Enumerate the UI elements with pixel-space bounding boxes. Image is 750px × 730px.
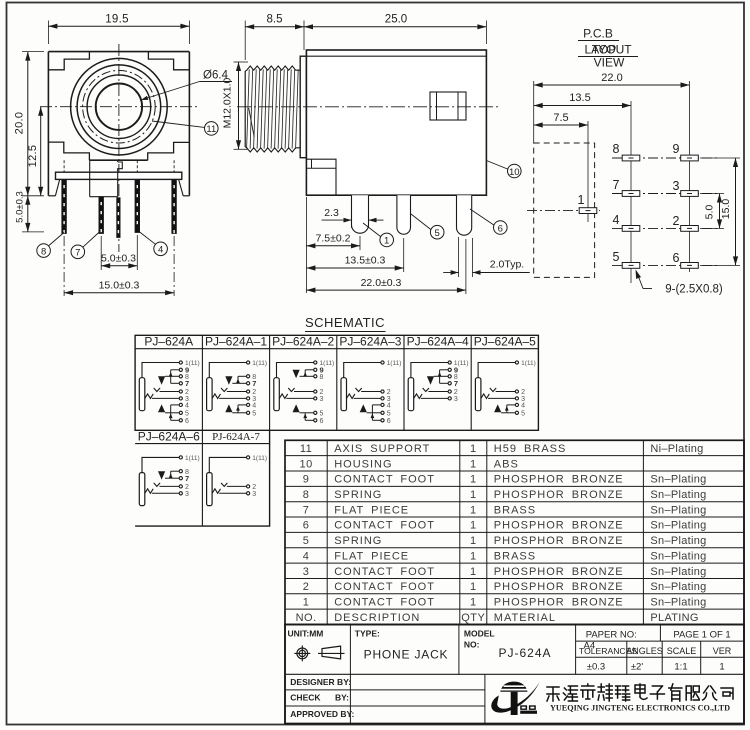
svg-text:PJ–624A–4: PJ–624A–4 bbox=[407, 334, 469, 348]
schematic PJ-624A-6: terminal 7 bbox=[179, 477, 182, 480]
schematic PJ-624A: terminal 7 bbox=[179, 382, 182, 385]
svg-text:PHOSPHOR BRONZE: PHOSPHOR BRONZE bbox=[494, 535, 624, 547]
svg-text:5: 5 bbox=[320, 411, 324, 418]
front corner steps bbox=[48, 52, 89, 70]
balloon 7 bbox=[71, 245, 85, 259]
svg-text:BY:: BY: bbox=[335, 693, 349, 703]
schematic PJ-624A-1: terminal 5 bbox=[247, 411, 250, 414]
svg-text:BRASS: BRASS bbox=[494, 550, 536, 562]
schematic PJ-624A-3: terminal 1(11) bbox=[381, 361, 384, 364]
schematic PJ-624A-3: sleeve wire to terminal 1 bbox=[344, 363, 381, 378]
svg-text:Sn–Plating: Sn–Plating bbox=[650, 581, 706, 593]
svg-text:SCHEMATIC: SCHEMATIC bbox=[305, 315, 385, 330]
pad 6 bbox=[681, 263, 699, 269]
svg-text:1: 1 bbox=[719, 662, 724, 673]
dim 25.0 top bbox=[304, 26, 486, 28]
side view: phone jack side elevation bbox=[222, 14, 530, 295]
svg-text:3: 3 bbox=[252, 491, 256, 498]
schematic PJ-624A: terminal 2 bbox=[179, 390, 182, 393]
svg-text:±2': ±2' bbox=[631, 662, 643, 673]
svg-text:15.0: 15.0 bbox=[720, 199, 732, 220]
centerline through pin 1 bbox=[527, 210, 600, 212]
dim 15.0 pcb bbox=[700, 157, 740, 159]
schematic PJ-624A: terminal 3 bbox=[179, 397, 182, 400]
svg-text:1: 1 bbox=[303, 596, 310, 608]
pin 7 (front) bbox=[99, 197, 104, 234]
svg-text:PHOSPHOR BRONZE: PHOSPHOR BRONZE bbox=[494, 581, 624, 593]
svg-text:P.C.B: P.C.B bbox=[583, 27, 613, 41]
svg-text:3: 3 bbox=[454, 396, 458, 403]
svg-text:DESCRIPTION: DESCRIPTION bbox=[334, 612, 420, 624]
svg-text:ANGLES: ANGLES bbox=[626, 646, 663, 656]
dim 20.0 left bbox=[22, 51, 44, 53]
svg-text:3: 3 bbox=[185, 491, 189, 498]
front body outline bbox=[48, 51, 189, 53]
schematic PJ-624A-5: sleeve wire to terminal 1 bbox=[478, 363, 515, 378]
svg-text:VER: VER bbox=[713, 646, 732, 656]
svg-text:Sn–Plating: Sn–Plating bbox=[650, 535, 706, 547]
projection symbol cone bbox=[322, 646, 341, 659]
svg-text:7: 7 bbox=[303, 504, 310, 516]
pad 7 bbox=[622, 191, 640, 197]
svg-text:10: 10 bbox=[509, 167, 520, 178]
svg-text:25.0: 25.0 bbox=[385, 14, 407, 26]
svg-text:5: 5 bbox=[387, 411, 391, 418]
svg-text:4: 4 bbox=[252, 403, 256, 410]
svg-text:6: 6 bbox=[303, 520, 310, 532]
svg-text:5.0±0.3: 5.0±0.3 bbox=[15, 191, 26, 223]
schematic PJ-624A-2: terminal 8 bbox=[314, 375, 317, 378]
balloon 10 bbox=[508, 164, 522, 178]
svg-text:15.0±0.3: 15.0±0.3 bbox=[99, 279, 140, 291]
svg-text:M12.0X1.0: M12.0X1.0 bbox=[222, 77, 234, 128]
svg-text:SPRING: SPRING bbox=[334, 489, 382, 501]
pin 8 (front) bbox=[62, 180, 67, 234]
svg-text:PJ–624A–2: PJ–624A–2 bbox=[272, 334, 334, 348]
svg-text:1(11): 1(11) bbox=[185, 455, 200, 462]
schematic PJ-624A-7: sleeve bar bbox=[207, 473, 213, 506]
pin 5 (side) bbox=[397, 195, 411, 234]
schematic PJ-624A-1: terminal 1(11) bbox=[247, 361, 250, 364]
svg-text:PJ–624A–1: PJ–624A–1 bbox=[205, 334, 267, 348]
pin 4 (front) bbox=[135, 180, 140, 233]
jack barrel circles bbox=[71, 58, 168, 155]
centerline side bbox=[237, 106, 500, 108]
svg-text:1(11): 1(11) bbox=[252, 455, 267, 462]
pad 5 bbox=[622, 263, 640, 269]
svg-text:Ni–Plating: Ni–Plating bbox=[650, 443, 703, 455]
schematic PJ-624A-3: terminal 6 bbox=[381, 419, 384, 422]
schematic PJ-624A-5: terminal 2 bbox=[515, 390, 518, 393]
pad row centerlines bbox=[612, 157, 718, 159]
svg-text:BRASS: BRASS bbox=[494, 504, 536, 516]
svg-text:1: 1 bbox=[470, 535, 477, 547]
svg-text:5: 5 bbox=[185, 411, 189, 418]
svg-text:PJ–624A–3: PJ–624A–3 bbox=[339, 334, 401, 348]
threaded bushing M12 bbox=[247, 66, 301, 152]
svg-text:6: 6 bbox=[498, 223, 503, 234]
svg-text:2: 2 bbox=[673, 214, 680, 228]
balloon 1 bbox=[380, 233, 394, 247]
parts list table bbox=[285, 440, 744, 624]
svg-text:5: 5 bbox=[435, 228, 440, 239]
pin 6 (side) bbox=[457, 195, 472, 235]
svg-text:PAPER NO:: PAPER NO: bbox=[586, 630, 637, 641]
svg-text:CONTACT FOOT: CONTACT FOOT bbox=[334, 566, 435, 578]
svg-text:TOP: TOP bbox=[592, 43, 616, 57]
schematic PJ-624A: terminal 1(11) bbox=[179, 361, 182, 364]
svg-text:H59 BRASS: H59 BRASS bbox=[494, 443, 567, 455]
svg-text:VIEW: VIEW bbox=[594, 56, 625, 70]
svg-text:2.0Typ.: 2.0Typ. bbox=[490, 258, 524, 270]
schematic PJ-624A: terminal 4 bbox=[179, 403, 182, 406]
dim 12.5 left bbox=[40, 107, 42, 196]
svg-text:FLAT PIECE: FLAT PIECE bbox=[334, 550, 409, 562]
schematic PJ-624A-1: terminal 2 bbox=[247, 390, 250, 393]
svg-text:MODEL: MODEL bbox=[464, 629, 495, 639]
svg-text:PJ-624A-7: PJ-624A-7 bbox=[212, 431, 260, 443]
svg-text:1: 1 bbox=[384, 236, 389, 247]
balloon 6 bbox=[494, 221, 508, 235]
pad 2 bbox=[681, 226, 699, 232]
svg-text:1(11): 1(11) bbox=[252, 360, 267, 367]
svg-text:UNIT:MM: UNIT:MM bbox=[288, 629, 324, 639]
svg-text:10: 10 bbox=[299, 458, 312, 470]
svg-text:Sn–Plating: Sn–Plating bbox=[650, 504, 706, 516]
svg-text:3: 3 bbox=[673, 179, 680, 193]
svg-text:APPROVED BY:: APPROVED BY: bbox=[290, 709, 354, 719]
dim 7.5 pcb bbox=[534, 124, 588, 126]
schematic PJ-624A-6: sleeve wire to terminal 1 bbox=[142, 457, 179, 472]
svg-text:PJ-624A: PJ-624A bbox=[498, 646, 551, 660]
schematic PJ-624A-3: sleeve bar bbox=[341, 378, 347, 411]
svg-text:11: 11 bbox=[300, 443, 312, 455]
svg-text:1:1: 1:1 bbox=[674, 662, 687, 673]
svg-text:1: 1 bbox=[470, 550, 477, 562]
side body lower-left block bbox=[306, 159, 336, 194]
pad 9 bbox=[681, 155, 699, 161]
svg-text:4: 4 bbox=[185, 403, 189, 410]
svg-text:2.3: 2.3 bbox=[324, 207, 339, 219]
schematic PJ-624A-1: sleeve wire to terminal 1 bbox=[209, 363, 246, 378]
dim 5.0±0.3 bottom (pin spacing) bbox=[100, 236, 102, 270]
svg-text:DESIGNER BY:: DESIGNER BY: bbox=[290, 677, 351, 687]
dim 22.0 pcb bbox=[534, 84, 690, 86]
schematic PJ-624A-6: terminal 1(11) bbox=[179, 456, 182, 459]
schematic PJ-624A-2: sleeve bar bbox=[274, 378, 280, 411]
schematic PJ-624A-5: terminal 5 bbox=[515, 411, 518, 414]
dim 2.0 Typ bbox=[458, 237, 460, 277]
svg-text:NO.: NO. bbox=[296, 612, 317, 624]
svg-text:1: 1 bbox=[470, 520, 477, 532]
svg-text:1: 1 bbox=[578, 193, 585, 207]
schematic PJ-624A-1: terminal 7 bbox=[247, 382, 250, 385]
svg-text:CONTACT FOOT: CONTACT FOOT bbox=[334, 474, 435, 486]
dim 7.5±0.2 bbox=[305, 197, 307, 293]
svg-text:CONTACT FOOT: CONTACT FOOT bbox=[334, 596, 435, 608]
centerlines front bbox=[118, 44, 120, 252]
schematic PJ-624A-4: terminal 7 bbox=[448, 382, 451, 385]
svg-text:9: 9 bbox=[673, 142, 680, 156]
svg-text:12.5: 12.5 bbox=[27, 145, 39, 168]
svg-text:8: 8 bbox=[613, 142, 620, 156]
svg-text:5: 5 bbox=[303, 535, 310, 547]
projection symbol target bbox=[297, 648, 308, 659]
schematic PJ-624A-4: sleeve wire to terminal 1 bbox=[411, 363, 448, 378]
svg-text:1: 1 bbox=[470, 566, 477, 578]
svg-text:8.5: 8.5 bbox=[267, 14, 283, 26]
dim 5.0±0.3 left bbox=[22, 231, 44, 233]
svg-text:1: 1 bbox=[470, 458, 477, 470]
svg-text:4: 4 bbox=[521, 403, 525, 410]
svg-text:8: 8 bbox=[41, 246, 46, 257]
pin 1 (side) bbox=[352, 195, 369, 233]
pad 4 bbox=[622, 226, 640, 232]
schematic PJ-624A-2: terminal 5 bbox=[314, 411, 317, 414]
schematic grid row 2 bbox=[135, 430, 270, 526]
svg-text:6: 6 bbox=[185, 418, 189, 425]
dim 15.0±0.3 bottom bbox=[63, 236, 65, 296]
schematic PJ-624A: terminal 8 bbox=[179, 375, 182, 378]
svg-text:7: 7 bbox=[185, 474, 189, 483]
svg-text:6: 6 bbox=[673, 251, 680, 265]
schematic PJ-624A-5: sleeve bar bbox=[475, 378, 481, 411]
svg-text:20.0: 20.0 bbox=[14, 112, 26, 135]
svg-text:PJ–624A: PJ–624A bbox=[144, 334, 193, 348]
svg-text:PAGE 1 OF 1: PAGE 1 OF 1 bbox=[673, 630, 730, 641]
svg-text:TYPE:: TYPE: bbox=[355, 629, 380, 639]
company logo bbox=[491, 682, 539, 715]
schematic PJ-624A-7: terminal 3 bbox=[247, 492, 250, 495]
title block inner borders bbox=[285, 673, 744, 675]
svg-text:11: 11 bbox=[206, 124, 216, 135]
svg-text:1: 1 bbox=[470, 581, 477, 593]
svg-text:5: 5 bbox=[252, 411, 256, 418]
svg-text:NO:: NO: bbox=[464, 640, 480, 650]
svg-text:QTY: QTY bbox=[461, 612, 485, 624]
svg-text:PHOSPHOR BRONZE: PHOSPHOR BRONZE bbox=[494, 489, 624, 501]
svg-text:A4: A4 bbox=[584, 641, 596, 652]
svg-text:FLAT PIECE: FLAT PIECE bbox=[334, 504, 409, 516]
svg-text:SCALE: SCALE bbox=[667, 646, 697, 656]
schematic PJ-624A-4: terminal 8 bbox=[448, 375, 451, 378]
svg-text:6: 6 bbox=[387, 418, 391, 425]
pin stubs behind flange bbox=[136, 160, 138, 172]
svg-text:7.5±0.2: 7.5±0.2 bbox=[316, 233, 351, 245]
svg-text:CHECK: CHECK bbox=[290, 693, 321, 703]
svg-text:13.5: 13.5 bbox=[569, 92, 590, 104]
svg-text:Sn–Plating: Sn–Plating bbox=[650, 474, 706, 486]
schematic PJ-624A-7: terminal 1(11) bbox=[247, 456, 250, 459]
dim 19.5 top of front view bbox=[47, 21, 49, 45]
svg-text:8: 8 bbox=[320, 374, 324, 381]
schematic PJ-624A: terminal 5 bbox=[179, 411, 182, 414]
schematic PJ-624A-1: terminal 4 bbox=[247, 403, 250, 406]
schematic PJ-624A-2: sleeve wire to terminal 1 bbox=[277, 363, 314, 378]
schematic PJ-624A-5: terminal 1(11) bbox=[515, 361, 518, 364]
svg-text:ABS: ABS bbox=[494, 458, 519, 470]
front feet bbox=[48, 195, 55, 197]
svg-text:9: 9 bbox=[303, 474, 310, 486]
schematic PJ-624A-2: terminal 9 bbox=[314, 368, 317, 371]
schematic PJ-624A-1: sleeve bar bbox=[207, 378, 213, 411]
dim 2.3 pin width bbox=[351, 216, 353, 228]
balloon 11 with leader bbox=[205, 122, 219, 136]
svg-text:1(11): 1(11) bbox=[387, 360, 402, 367]
schematic PJ-624A-2: terminal 2 bbox=[314, 390, 317, 393]
svg-text:7: 7 bbox=[75, 248, 80, 259]
balloon 5 bbox=[430, 225, 444, 239]
svg-text:AXIS SUPPORT: AXIS SUPPORT bbox=[334, 443, 430, 455]
svg-text:PJ–624A–6: PJ–624A–6 bbox=[138, 430, 200, 444]
dim M12 diameter bbox=[234, 61, 249, 63]
svg-text:19.5: 19.5 bbox=[105, 14, 129, 26]
balloon 4 bbox=[154, 242, 168, 256]
svg-text:Sn–Plating: Sn–Plating bbox=[650, 596, 706, 608]
svg-text:13.5±0.3: 13.5±0.3 bbox=[345, 255, 386, 267]
balloon 8 bbox=[37, 244, 51, 258]
front center boss bbox=[89, 160, 91, 197]
company name chinese bbox=[547, 684, 733, 701]
schematic PJ-624A-4: terminal 1(11) bbox=[448, 361, 451, 364]
dim 22.0±0.3 bbox=[465, 239, 467, 294]
svg-text:1: 1 bbox=[470, 596, 477, 608]
schematic PJ-624A: sleeve wire to terminal 1 bbox=[142, 363, 179, 378]
svg-text:7: 7 bbox=[454, 379, 458, 388]
front flange bar bbox=[56, 172, 182, 179]
pcb outline dashed bbox=[534, 143, 595, 277]
schematic PJ-624A: sleeve bar bbox=[139, 378, 145, 411]
schematic grid row 1 bbox=[135, 335, 538, 430]
dim 8.5 top bbox=[244, 21, 246, 61]
svg-text:Sn–Plating: Sn–Plating bbox=[650, 566, 706, 578]
svg-text:±0.3: ±0.3 bbox=[587, 662, 605, 673]
svg-text:1(11): 1(11) bbox=[521, 360, 536, 367]
schematic PJ-624A-5: terminal 3 bbox=[515, 397, 518, 400]
schematic PJ-624A-7: sleeve wire to terminal 1 bbox=[209, 457, 246, 472]
svg-text:4: 4 bbox=[387, 403, 391, 410]
schematic PJ-624A-3: terminal 3 bbox=[381, 397, 384, 400]
svg-text:2: 2 bbox=[303, 581, 310, 593]
svg-text:HOUSING: HOUSING bbox=[334, 458, 392, 470]
svg-text:Sn–Plating: Sn–Plating bbox=[650, 520, 706, 532]
schematic PJ-624A-6: terminal 3 bbox=[179, 492, 182, 495]
svg-text:4: 4 bbox=[613, 213, 620, 227]
svg-text:3: 3 bbox=[303, 566, 310, 578]
schematic PJ-624A-6: sleeve bar bbox=[139, 473, 145, 506]
svg-text:9-(2.5X0.8): 9-(2.5X0.8) bbox=[665, 284, 723, 296]
schematic PJ-624A-5: terminal 4 bbox=[515, 403, 518, 406]
svg-text:CONTACT FOOT: CONTACT FOOT bbox=[334, 520, 435, 532]
svg-text:5: 5 bbox=[521, 411, 525, 418]
schematic PJ-624A-6: terminal 8 bbox=[179, 470, 182, 473]
flange washer bbox=[300, 56, 306, 158]
schematic PJ-624A-2: terminal 3 bbox=[314, 397, 317, 400]
dim 13.5±0.3 bbox=[403, 238, 405, 272]
svg-text:PJ–624A–5: PJ–624A–5 bbox=[474, 334, 536, 348]
svg-text:4: 4 bbox=[158, 245, 163, 256]
schematic PJ-624A-4: sleeve bar bbox=[408, 378, 414, 411]
schematic PJ-624A-4: terminal 3 bbox=[448, 397, 451, 400]
svg-text:1: 1 bbox=[470, 443, 477, 455]
svg-text:PHOSPHOR BRONZE: PHOSPHOR BRONZE bbox=[494, 520, 624, 532]
svg-text:6: 6 bbox=[320, 418, 324, 425]
schematic PJ-624A-3: terminal 4 bbox=[381, 403, 384, 406]
svg-text:MATERIAL: MATERIAL bbox=[494, 612, 556, 624]
svg-text:PHOSPHOR BRONZE: PHOSPHOR BRONZE bbox=[494, 474, 624, 486]
title block bbox=[285, 625, 744, 724]
svg-text:Sn–Plating: Sn–Plating bbox=[650, 489, 706, 501]
svg-text:1: 1 bbox=[470, 474, 477, 486]
svg-text:SPRING: SPRING bbox=[334, 535, 382, 547]
dim 13.5 pcb bbox=[534, 105, 631, 107]
pad 1 bbox=[579, 208, 597, 214]
svg-text:Sn–Plating: Sn–Plating bbox=[650, 550, 706, 562]
front view: phone jack front elevation bbox=[14, 14, 233, 297]
svg-text:5: 5 bbox=[613, 250, 620, 264]
svg-text:PHONE JACK: PHONE JACK bbox=[364, 648, 449, 662]
schematic PJ-624A-2: terminal 1(11) bbox=[314, 361, 317, 364]
svg-text:22.0: 22.0 bbox=[601, 72, 622, 84]
schematic PJ-624A-4: terminal 9 bbox=[448, 368, 451, 371]
svg-text:7.5: 7.5 bbox=[553, 112, 568, 124]
schematic PJ-624A-6: terminal 2 bbox=[179, 485, 182, 488]
svg-text:7: 7 bbox=[613, 178, 620, 192]
schematic PJ-624A-1: terminal 3 bbox=[247, 397, 250, 400]
svg-text:PHOSPHOR BRONZE: PHOSPHOR BRONZE bbox=[494, 566, 624, 578]
schematic PJ-624A-2: terminal 6 bbox=[314, 419, 317, 422]
svg-text:22.0±0.3: 22.0±0.3 bbox=[361, 277, 402, 289]
pad 3 bbox=[681, 191, 699, 197]
center pin (front) bbox=[117, 198, 120, 238]
svg-text:1: 1 bbox=[470, 489, 477, 501]
side body housing bbox=[306, 50, 486, 195]
schematic PJ-624A-1: terminal 8 bbox=[247, 375, 250, 378]
svg-text:PHOSPHOR BRONZE: PHOSPHOR BRONZE bbox=[494, 596, 624, 608]
pad 8 bbox=[622, 155, 640, 161]
label Ø6.4 with leader bbox=[141, 82, 200, 101]
svg-text:3: 3 bbox=[320, 396, 324, 403]
PCB layout view bbox=[527, 27, 740, 296]
pin 2 (front right) bbox=[172, 180, 177, 234]
svg-text:CONTACT FOOT: CONTACT FOOT bbox=[334, 581, 435, 593]
schematic PJ-624A: terminal 9 bbox=[179, 368, 182, 371]
svg-text:1: 1 bbox=[470, 504, 477, 516]
svg-text:4: 4 bbox=[303, 550, 310, 562]
schematic PJ-624A-7: terminal 2 bbox=[247, 485, 250, 488]
svg-text:5.0±0.3: 5.0±0.3 bbox=[101, 253, 136, 265]
schematic PJ-624A-3: terminal 5 bbox=[381, 411, 384, 414]
svg-text:7: 7 bbox=[185, 379, 189, 388]
svg-text:YUEQING JINGTENG ELECTRONICS C: YUEQING JINGTENG ELECTRONICS CO.,LTD bbox=[550, 704, 730, 713]
switch slot detail bbox=[430, 92, 466, 120]
schematic PJ-624A: terminal 6 bbox=[179, 419, 182, 422]
schematic PJ-624A-3: terminal 2 bbox=[381, 390, 384, 393]
schematic PJ-624A-4: terminal 2 bbox=[448, 390, 451, 393]
dim 5.0 pcb bbox=[700, 193, 724, 195]
svg-text:8: 8 bbox=[303, 489, 310, 501]
svg-text:7: 7 bbox=[252, 379, 256, 388]
svg-text:PLATING: PLATING bbox=[650, 612, 698, 624]
svg-text:5.0: 5.0 bbox=[704, 205, 716, 220]
